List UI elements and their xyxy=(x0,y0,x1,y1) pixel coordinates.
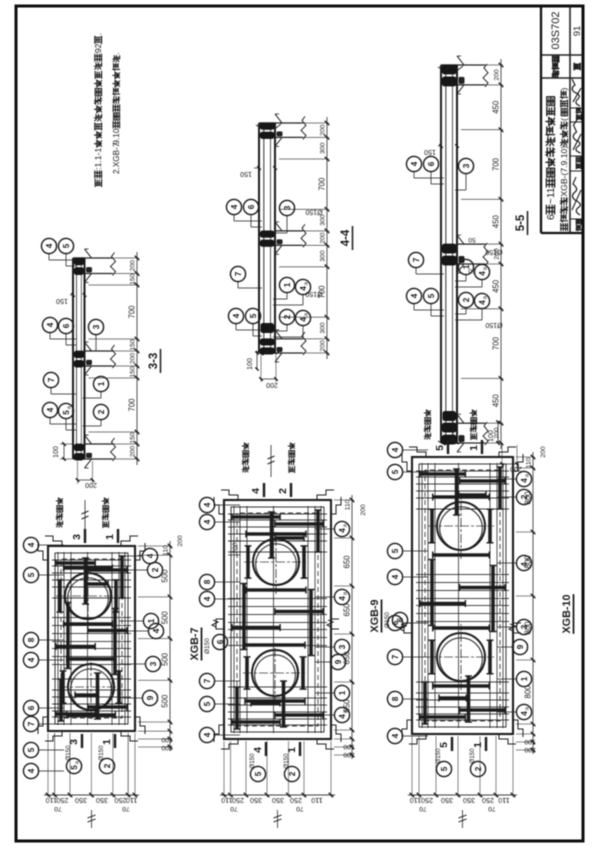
svg-text:450: 450 xyxy=(492,100,501,114)
svg-text:200: 200 xyxy=(232,542,239,554)
svg-text:4-4: 4-4 xyxy=(340,229,352,246)
svg-text:1: 1 xyxy=(520,676,529,681)
svg-text:.9.10: .9.10 xyxy=(112,128,121,147)
svg-text:3-3: 3-3 xyxy=(148,353,160,370)
svg-text:a: a xyxy=(304,281,310,285)
svg-text:800: 800 xyxy=(524,685,533,699)
svg-text:800: 800 xyxy=(524,555,533,569)
svg-text:4: 4 xyxy=(478,271,487,276)
svg-text:4: 4 xyxy=(152,628,161,633)
svg-text:4: 4 xyxy=(250,488,262,494)
svg-text:4: 4 xyxy=(391,574,400,579)
svg-text:a: a xyxy=(343,591,349,595)
svg-text:Ø150: Ø150 xyxy=(283,753,290,769)
svg-text:110: 110 xyxy=(410,796,421,805)
svg-text:4: 4 xyxy=(203,519,212,524)
svg-text:350: 350 xyxy=(463,796,475,805)
section 5-5 rebar callouts xyxy=(406,156,489,320)
section 3-3 slab and walls xyxy=(73,249,116,468)
svg-text:Ø150: Ø150 xyxy=(98,745,105,761)
svg-text:110: 110 xyxy=(345,499,352,510)
section 3-3 label xyxy=(148,349,161,373)
svg-text:200: 200 xyxy=(320,232,327,244)
svg-text:a: a xyxy=(525,473,531,477)
plan XGB-10 slab outline xyxy=(402,447,523,744)
svg-text:4: 4 xyxy=(230,204,239,209)
plan XGB-7 bottom dimension string xyxy=(138,541,173,751)
svg-text:Ø150: Ø150 xyxy=(204,638,211,654)
plan XGB-9 bottom dimension string xyxy=(334,495,355,759)
svg-text:2: 2 xyxy=(277,488,289,494)
svg-text:700: 700 xyxy=(318,177,327,191)
svg-text:650: 650 xyxy=(343,555,352,569)
svg-text:4: 4 xyxy=(410,161,419,166)
svg-text:650: 650 xyxy=(343,699,352,713)
section 4-4 extra xyxy=(247,123,323,388)
svg-text:a: a xyxy=(75,760,81,764)
svg-text:6: 6 xyxy=(247,204,256,209)
svg-text:1: 1 xyxy=(283,282,292,287)
svg-text:7: 7 xyxy=(47,377,56,382)
svg-text:2.XGB-7: 2.XGB-7 xyxy=(112,142,121,174)
section 4-4 dimension values xyxy=(318,124,327,351)
plan XGB-9 manhole circles xyxy=(243,530,308,705)
svg-text:70: 70 xyxy=(54,805,62,812)
svg-text:250: 250 xyxy=(482,796,494,805)
svg-text:100: 100 xyxy=(161,736,173,743)
svg-text:a: a xyxy=(304,312,310,316)
svg-text:a: a xyxy=(67,405,73,409)
svg-text:7: 7 xyxy=(391,654,400,659)
section 5-5 extra xyxy=(438,65,522,472)
notes text xyxy=(93,33,121,187)
svg-text:3: 3 xyxy=(92,324,101,329)
svg-text:200: 200 xyxy=(494,69,501,81)
label tujihao xyxy=(552,56,558,78)
plan XGB-10 bottom dimension string xyxy=(516,452,536,754)
svg-text:6: 6 xyxy=(27,705,36,710)
plan XGB-10 manhole circles xyxy=(428,493,494,690)
svg-text:1: 1 xyxy=(97,381,106,386)
svg-text:1: 1 xyxy=(472,742,484,748)
svg-text:): ) xyxy=(559,87,569,90)
svg-text:4: 4 xyxy=(391,447,400,452)
plan XGB-9 slab outline xyxy=(214,490,341,749)
plan XGB-7 rebar grid xyxy=(52,552,131,725)
svg-text:Ø150: Ø150 xyxy=(485,248,502,255)
svg-text:5: 5 xyxy=(434,445,446,451)
plan XGB-7 label xyxy=(189,628,202,661)
label ye xyxy=(574,63,580,69)
svg-text:1: 1 xyxy=(104,534,116,540)
svg-text:Ø150: Ø150 xyxy=(469,748,476,764)
svg-text:3: 3 xyxy=(149,661,158,666)
svg-text:100: 100 xyxy=(247,358,254,370)
plan XGB-10 edge callouts xyxy=(387,442,531,743)
svg-text:4: 4 xyxy=(46,407,55,412)
svg-text:5: 5 xyxy=(391,469,400,474)
svg-text:a: a xyxy=(483,266,489,270)
svg-text:700: 700 xyxy=(492,157,501,171)
svg-text:6: 6 xyxy=(62,323,71,328)
svg-text:XGB-7: XGB-7 xyxy=(189,628,201,661)
plan XGB-9 cut marks left xyxy=(249,742,300,782)
section 5-5 slab and walls xyxy=(441,56,488,452)
svg-text:~11: ~11 xyxy=(546,187,557,204)
svg-text:a: a xyxy=(343,523,349,527)
atlas number 03S702 xyxy=(550,12,562,50)
svg-text:500: 500 xyxy=(161,694,170,708)
svg-text:4: 4 xyxy=(520,478,529,483)
plan XGB-7 rebar thick bars xyxy=(56,556,127,721)
svg-text:a: a xyxy=(525,706,531,710)
plan XGB-9 layer legend xyxy=(242,443,294,477)
svg-text:800: 800 xyxy=(524,491,533,505)
svg-text:1: 1 xyxy=(147,618,156,623)
svg-text:450: 450 xyxy=(492,215,501,229)
section 3-3 rebar callouts xyxy=(41,238,108,430)
title text cell xyxy=(546,87,569,230)
section 4-4 dimension string xyxy=(279,117,329,359)
svg-text:XGB-9: XGB-9 xyxy=(369,600,381,633)
svg-text:100: 100 xyxy=(53,446,60,458)
svg-text:a: a xyxy=(483,295,489,299)
svg-text:70: 70 xyxy=(419,805,427,812)
svg-text:1: 1 xyxy=(101,739,113,745)
section 5-5 label xyxy=(515,211,528,235)
plan XGB-9 edge callouts xyxy=(199,497,349,742)
svg-text:250: 250 xyxy=(232,796,244,805)
svg-text:Ø150: Ø150 xyxy=(435,748,442,764)
section 3-3 extra xyxy=(53,442,97,488)
svg-text:Ø150: Ø150 xyxy=(305,290,322,297)
svg-text:3: 3 xyxy=(338,644,347,649)
svg-text:110: 110 xyxy=(163,545,170,556)
svg-text:4: 4 xyxy=(203,502,212,507)
svg-text:650: 650 xyxy=(343,603,352,617)
svg-text:4: 4 xyxy=(27,542,36,547)
svg-text:250: 250 xyxy=(421,796,433,805)
plan XGB-10 cut marks left xyxy=(435,737,486,777)
svg-text:5: 5 xyxy=(440,766,449,771)
svg-text:2: 2 xyxy=(474,766,483,771)
svg-text:2: 2 xyxy=(97,409,106,414)
svg-text:1: 1 xyxy=(338,690,347,695)
svg-text:5: 5 xyxy=(62,243,71,248)
svg-text:4: 4 xyxy=(203,596,212,601)
svg-text:5-5: 5-5 xyxy=(515,214,527,231)
svg-text:4: 4 xyxy=(27,768,36,773)
svg-text:70: 70 xyxy=(230,805,238,812)
plan XGB-10 left dimension string xyxy=(408,736,517,828)
svg-text:8: 8 xyxy=(391,696,400,701)
svg-text:4: 4 xyxy=(410,293,419,298)
svg-text:200: 200 xyxy=(540,446,547,458)
svg-text:350: 350 xyxy=(96,796,108,805)
svg-text:9: 9 xyxy=(146,695,155,700)
svg-text:4: 4 xyxy=(252,747,264,753)
svg-text:650: 650 xyxy=(343,651,352,665)
svg-text:5: 5 xyxy=(27,572,36,577)
svg-text:XGB-10: XGB-10 xyxy=(561,594,573,633)
svg-text:2: 2 xyxy=(283,314,292,319)
plan XGB-9 rebar thick bars xyxy=(232,510,323,729)
svg-text:3: 3 xyxy=(68,739,80,745)
plan XGB-10 cut marks right xyxy=(434,440,482,454)
svg-text:4: 4 xyxy=(391,733,400,738)
svg-text:7: 7 xyxy=(234,271,243,276)
svg-text:110: 110 xyxy=(221,796,232,805)
svg-text:4: 4 xyxy=(338,714,347,719)
svg-text:200: 200 xyxy=(130,353,137,365)
svg-text:4: 4 xyxy=(203,732,212,737)
svg-text:.: . xyxy=(93,33,103,35)
svg-text:200: 200 xyxy=(161,744,173,751)
plan XGB-10 label xyxy=(561,594,574,634)
svg-text:150: 150 xyxy=(130,339,137,351)
svg-text:8: 8 xyxy=(27,637,36,642)
svg-text:1: 1 xyxy=(286,747,298,753)
svg-text:700: 700 xyxy=(128,305,137,319)
svg-text:350: 350 xyxy=(441,796,453,805)
svg-text::1.1-1: :1.1-1 xyxy=(93,148,103,170)
svg-text:91: 91 xyxy=(572,26,583,37)
plan XGB-7 left dimension string xyxy=(44,733,139,828)
title block table grid xyxy=(541,6,583,233)
plan XGB-10 rebar grid xyxy=(416,463,509,728)
section 5-5 dimension string xyxy=(461,59,503,449)
svg-text:7: 7 xyxy=(203,678,212,683)
svg-text:Ø150: Ø150 xyxy=(305,208,322,215)
svg-text:500: 500 xyxy=(161,569,170,583)
svg-text:5: 5 xyxy=(62,410,71,415)
svg-text:4: 4 xyxy=(45,243,54,248)
svg-text:350: 350 xyxy=(272,796,284,805)
svg-text:150: 150 xyxy=(130,366,137,378)
svg-text:.: . xyxy=(112,52,121,54)
svg-text:4: 4 xyxy=(478,300,487,305)
svg-text:350: 350 xyxy=(75,796,87,805)
svg-text:5: 5 xyxy=(203,701,212,706)
svg-text:700: 700 xyxy=(492,336,501,350)
svg-text:2: 2 xyxy=(288,771,297,776)
svg-text:100: 100 xyxy=(488,430,495,442)
plan XGB-7 slab outline xyxy=(38,536,145,741)
svg-text:200: 200 xyxy=(130,446,137,458)
svg-text:350: 350 xyxy=(250,796,262,805)
svg-text:150: 150 xyxy=(56,297,68,304)
svg-text:70: 70 xyxy=(296,805,304,812)
svg-text:4: 4 xyxy=(232,313,241,318)
plan XGB-7 manhole circles xyxy=(56,564,123,719)
plan XGB-7 cut marks right xyxy=(71,529,118,543)
plan XGB-9 annotations xyxy=(212,504,408,629)
svg-text:200: 200 xyxy=(177,535,184,547)
svg-text:5: 5 xyxy=(427,293,436,298)
svg-text:4: 4 xyxy=(299,317,308,322)
svg-text:450: 450 xyxy=(492,394,501,408)
section 5-5 dimension values xyxy=(492,69,501,439)
plan XGB-10 layer legend xyxy=(424,410,476,444)
svg-text:Ø150: Ø150 xyxy=(485,321,502,328)
svg-text:Ø150: Ø150 xyxy=(65,745,72,761)
svg-text:250: 250 xyxy=(115,796,127,805)
plan XGB-9 label xyxy=(369,600,382,633)
svg-text:5: 5 xyxy=(249,313,258,318)
section 4-4 slab thickness 150 xyxy=(240,166,277,177)
svg-text:250: 250 xyxy=(290,796,302,805)
svg-text:200: 200 xyxy=(343,751,355,758)
svg-text:4: 4 xyxy=(520,711,529,716)
svg-text:200: 200 xyxy=(130,260,137,272)
svg-text:200: 200 xyxy=(85,481,97,488)
svg-text:100: 100 xyxy=(343,743,355,750)
section 4-4 rebar callouts xyxy=(226,199,310,337)
svg-text:500: 500 xyxy=(161,611,170,625)
plan XGB-7 annotations xyxy=(177,535,228,654)
svg-text:2: 2 xyxy=(103,763,112,768)
plan XGB-7 edge callouts xyxy=(23,537,163,778)
svg-text:5: 5 xyxy=(254,771,263,776)
svg-text:200: 200 xyxy=(524,746,536,753)
signature cells xyxy=(570,79,583,231)
svg-text:7: 7 xyxy=(412,257,421,262)
section 4-4 slab and walls xyxy=(259,114,306,362)
svg-text:300: 300 xyxy=(320,322,327,334)
svg-text:03S702: 03S702 xyxy=(550,12,562,50)
svg-text:2: 2 xyxy=(462,297,471,302)
section 3-3 slab thickness 150 xyxy=(56,293,86,304)
svg-text:150: 150 xyxy=(240,170,252,177)
plan XGB-7 layer legend xyxy=(56,498,108,532)
svg-text:4: 4 xyxy=(338,528,347,533)
svg-text:4: 4 xyxy=(27,657,36,662)
svg-text:800: 800 xyxy=(524,621,533,635)
section 4-4 label xyxy=(340,226,353,250)
svg-text:200: 200 xyxy=(360,504,367,516)
svg-text:50: 50 xyxy=(468,267,476,274)
svg-text:70: 70 xyxy=(122,805,130,812)
svg-text:7: 7 xyxy=(27,721,36,726)
plan XGB-9 left dimension string xyxy=(220,741,335,828)
svg-text:200: 200 xyxy=(266,381,278,388)
svg-text:700: 700 xyxy=(128,398,137,412)
page number 91 xyxy=(572,26,583,37)
svg-text:3: 3 xyxy=(462,163,471,168)
svg-text:5: 5 xyxy=(70,765,79,770)
svg-text:110: 110 xyxy=(498,796,509,805)
svg-text:Ø150: Ø150 xyxy=(249,753,256,769)
svg-text:450: 450 xyxy=(492,279,501,293)
svg-text:300: 300 xyxy=(320,250,327,262)
svg-text:5: 5 xyxy=(391,548,400,553)
svg-text:(: ( xyxy=(559,118,569,121)
plan XGB-7 cut marks left xyxy=(65,734,115,774)
svg-text:110: 110 xyxy=(311,796,322,805)
plan XGB-9 cut marks right xyxy=(250,483,291,497)
svg-text:200: 200 xyxy=(320,124,327,136)
svg-text:3: 3 xyxy=(71,534,83,540)
svg-text:9: 9 xyxy=(516,644,525,649)
section 3-3 dimension values xyxy=(128,260,137,457)
svg-text:1: 1 xyxy=(468,445,480,451)
svg-text:150: 150 xyxy=(130,432,137,444)
svg-text:150: 150 xyxy=(130,273,137,285)
svg-text:50: 50 xyxy=(468,236,476,243)
svg-text:110: 110 xyxy=(126,796,137,805)
svg-text:XGB-(7.9.10): XGB-(7.9.10) xyxy=(559,146,569,197)
svg-text:2: 2 xyxy=(151,567,160,572)
section 5-5 slab thickness 150 xyxy=(424,144,459,155)
svg-text:4: 4 xyxy=(146,553,155,558)
svg-text:6: 6 xyxy=(546,214,557,220)
section 3-3 dimension string xyxy=(89,252,140,465)
svg-text:4: 4 xyxy=(338,596,347,601)
svg-text:6: 6 xyxy=(427,161,436,166)
svg-text:110: 110 xyxy=(526,457,533,468)
svg-text:300: 300 xyxy=(320,142,327,154)
svg-text:8: 8 xyxy=(203,579,212,584)
svg-text:70: 70 xyxy=(488,805,496,812)
plan XGB-10 rebar thick bars xyxy=(420,467,505,724)
svg-text:92: 92 xyxy=(93,43,103,53)
plan XGB-9 rebar grid xyxy=(228,506,327,733)
svg-text:4: 4 xyxy=(46,322,55,327)
svg-text:110: 110 xyxy=(46,796,57,805)
svg-text:5: 5 xyxy=(27,747,36,752)
svg-text:200: 200 xyxy=(320,340,327,352)
svg-text:6: 6 xyxy=(391,620,400,625)
svg-text:500: 500 xyxy=(161,652,170,666)
svg-text:100: 100 xyxy=(524,738,536,745)
svg-text:250: 250 xyxy=(56,796,68,805)
plan XGB-10 annotations xyxy=(400,446,547,633)
svg-text:5: 5 xyxy=(438,742,450,748)
svg-text:150: 150 xyxy=(424,148,436,155)
